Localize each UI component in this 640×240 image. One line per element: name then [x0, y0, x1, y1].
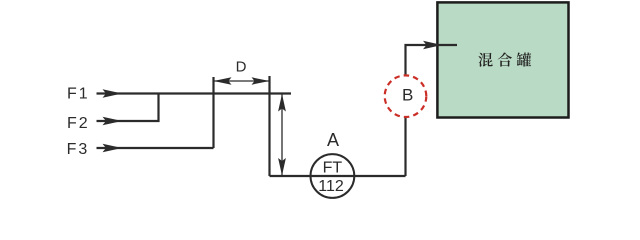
svg-text:D: D: [236, 58, 247, 75]
svg-text:F1: F1: [67, 85, 90, 102]
svg-text:F2: F2: [67, 115, 90, 132]
svg-text:FT: FT: [323, 160, 343, 177]
svg-text:F3: F3: [67, 141, 90, 158]
svg-text:A: A: [327, 130, 339, 150]
svg-text:B: B: [402, 85, 413, 104]
svg-text:112: 112: [318, 178, 344, 195]
